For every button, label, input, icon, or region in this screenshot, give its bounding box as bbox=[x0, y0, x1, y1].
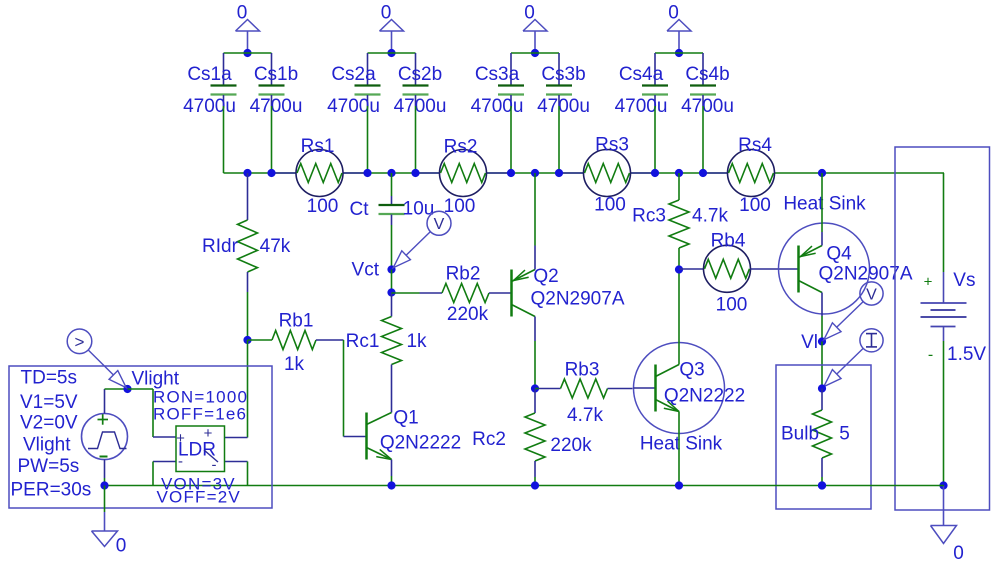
label Rb4 bbox=[711, 231, 746, 252]
junction on top rail x=271.5 bbox=[267, 169, 275, 177]
resistor Rb4 bbox=[679, 245, 799, 292]
capacitor Cs1b bbox=[259, 53, 285, 106]
svg-text:Cs1a: Cs1a bbox=[187, 64, 232, 85]
resistor Rb3 bbox=[535, 379, 633, 398]
svg-text:Vs: Vs bbox=[953, 270, 975, 291]
node bulb bottom bbox=[818, 481, 826, 489]
label Rs2 bbox=[444, 136, 478, 157]
label Rc2 bbox=[472, 429, 506, 450]
node junction Q2 collector/Rb3/Rc2 bbox=[531, 384, 539, 392]
label Bulb bbox=[781, 424, 819, 445]
label Rb3 bbox=[565, 360, 600, 381]
label Cs4a bbox=[619, 64, 664, 85]
value 4700u (Cs4a) bbox=[615, 96, 668, 117]
LDR switch arm bbox=[204, 450, 218, 462]
label Cs2a bbox=[331, 64, 376, 85]
svg-text:V1=5V: V1=5V bbox=[20, 392, 78, 413]
label Rs4 bbox=[738, 135, 772, 156]
svg-text:Q2N2907A: Q2N2907A bbox=[530, 289, 624, 310]
wire Cs2b to rail bbox=[415, 106, 417, 173]
svg-text:Q2: Q2 bbox=[533, 266, 558, 287]
ground 0 (top group 3) bbox=[523, 3, 547, 54]
wire Cs3a to rail bbox=[510, 106, 512, 173]
svg-text:100: 100 bbox=[307, 196, 339, 217]
svg-text:220k: 220k bbox=[550, 435, 592, 456]
junction on top rail x=511 bbox=[507, 169, 515, 177]
wire bottom rail bbox=[105, 485, 945, 487]
svg-text:Cs3b: Cs3b bbox=[541, 64, 585, 85]
wire Cs4b to rail bbox=[702, 106, 704, 173]
wire Vlight node to LDR bbox=[128, 389, 154, 437]
node bulb top bbox=[818, 384, 826, 392]
param V2=0V bbox=[20, 413, 78, 434]
svg-text:Rs4: Rs4 bbox=[738, 135, 772, 156]
value 4700u (Cs1a) bbox=[183, 96, 236, 117]
label Q2N2907A (Q4) bbox=[818, 264, 912, 285]
wire top rail segment 5 bbox=[775, 172, 945, 174]
wire Q3 emitter to rail bbox=[678, 412, 680, 486]
transistor circle Q4 bbox=[779, 223, 870, 314]
svg-text:V: V bbox=[434, 216, 445, 233]
voltage probe at Vl bbox=[824, 282, 883, 340]
label Rb1 bbox=[279, 311, 314, 332]
svg-text:4700u: 4700u bbox=[183, 96, 236, 117]
value 47k (RIdr) bbox=[260, 236, 291, 257]
value 5 (Bulb) bbox=[839, 424, 850, 445]
label - (Vs) bbox=[928, 347, 933, 364]
junction on top rail x=535 bbox=[531, 169, 539, 177]
label Cs4b bbox=[685, 64, 729, 85]
label Q3 bbox=[679, 360, 704, 381]
svg-text:TD=5s: TD=5s bbox=[21, 368, 78, 389]
svg-text:-: - bbox=[928, 347, 933, 364]
wire top rail segment 2 bbox=[343, 172, 440, 174]
svg-text:Cs2b: Cs2b bbox=[398, 64, 442, 85]
node junction Rc3/Rb4/Q3 bbox=[675, 265, 683, 273]
label Q1 bbox=[393, 408, 418, 429]
value 1.5V (Vs) bbox=[947, 344, 986, 365]
svg-text:Vl: Vl bbox=[801, 332, 818, 353]
wire battery to bottom rail bbox=[943, 327, 945, 486]
svg-text:LDR: LDR bbox=[178, 440, 216, 461]
svg-text:5: 5 bbox=[839, 424, 850, 445]
wire Q4 emitter to rail bbox=[821, 173, 823, 246]
junction on top rail x=367.5 bbox=[363, 169, 371, 177]
label + (Vs) bbox=[924, 274, 933, 291]
param VOFF=2V bbox=[157, 488, 241, 507]
label Ct bbox=[350, 199, 370, 220]
svg-text:-: - bbox=[212, 457, 217, 474]
svg-text:4700u: 4700u bbox=[681, 96, 734, 117]
label Cs3a bbox=[475, 64, 520, 85]
value 100 (Rs2) bbox=[444, 196, 476, 217]
svg-text:Cs1b: Cs1b bbox=[254, 64, 298, 85]
wire top group 1 bbox=[224, 52, 272, 54]
junction on bottom rail x=679 bbox=[675, 481, 683, 489]
wire top rail segment 3 bbox=[487, 172, 584, 174]
node Vct bbox=[352, 260, 396, 281]
label Heat Sink (Q4) bbox=[783, 194, 866, 215]
pin stubs Rs2 bbox=[416, 172, 512, 174]
ground 0 (top group 1) bbox=[236, 3, 260, 54]
wire Q2 collector down bbox=[534, 317, 536, 389]
label Vs bbox=[953, 270, 975, 291]
value 4700u (Cs3b) bbox=[537, 96, 590, 117]
wire Cs1a to rail bbox=[223, 106, 225, 173]
svg-text:Cs3a: Cs3a bbox=[475, 64, 520, 85]
pin LDR bottom-right bbox=[225, 462, 248, 486]
wire top group 2 bbox=[368, 52, 416, 54]
param RON=1000 bbox=[153, 388, 248, 407]
value 4700u (Cs2b) bbox=[394, 96, 447, 117]
label Rs3 bbox=[595, 134, 629, 155]
svg-text:+: + bbox=[924, 274, 933, 291]
label RIdr bbox=[202, 236, 239, 257]
junction on top rail x=822 bbox=[818, 169, 826, 177]
capacitor Cs4a bbox=[642, 53, 668, 106]
resistor Rs4 bbox=[728, 150, 775, 197]
value 100 (Rs3) bbox=[594, 194, 626, 215]
param PW=5s bbox=[18, 456, 80, 477]
svg-text:Vlight: Vlight bbox=[132, 369, 180, 390]
ground 0 (bottom right) bbox=[931, 486, 964, 563]
junction on bottom rail x=822 bbox=[818, 481, 826, 489]
label Cs1a bbox=[187, 64, 232, 85]
current probe at bulb bbox=[824, 329, 883, 387]
svg-text:ROFF=1e6: ROFF=1e6 bbox=[153, 405, 247, 424]
svg-text:Vct: Vct bbox=[352, 260, 380, 281]
wire Cs3b to rail bbox=[558, 106, 560, 173]
svg-text:Rs1: Rs1 bbox=[301, 136, 335, 157]
value 220k (Rb2) bbox=[447, 304, 489, 325]
value 100 (Rs1) bbox=[307, 196, 339, 217]
resistor RIdr bbox=[238, 173, 258, 340]
svg-text:Cs4b: Cs4b bbox=[685, 64, 729, 85]
value 1k (Rc1) bbox=[406, 331, 427, 352]
transistor circle Q3 bbox=[634, 343, 725, 434]
capacitor Ct bbox=[379, 173, 405, 270]
node Vlight bbox=[123, 369, 179, 394]
svg-text:100: 100 bbox=[716, 295, 748, 316]
ground 0 (bottom left) bbox=[92, 486, 127, 557]
label Q4 bbox=[826, 244, 852, 265]
node junction Vct/Rc1/Rb2 bbox=[387, 288, 395, 296]
junction on top rail x=559 bbox=[555, 169, 563, 177]
wire Vl to bulb bbox=[821, 342, 823, 389]
wire Q3 collector up bbox=[678, 270, 680, 365]
svg-text:Rc3: Rc3 bbox=[632, 206, 666, 227]
node junction top group 1 bbox=[243, 49, 251, 57]
transistor Q4 bbox=[799, 246, 823, 293]
svg-text:Rb2: Rb2 bbox=[446, 264, 481, 285]
resistor Rs1 bbox=[296, 150, 343, 197]
pin stubs Rs3 bbox=[559, 172, 655, 174]
param ROFF=1e6 bbox=[153, 405, 247, 424]
ground 0 (top group 2) bbox=[380, 3, 404, 54]
svg-text:Ct: Ct bbox=[350, 199, 370, 220]
svg-text:4700u: 4700u bbox=[615, 96, 668, 117]
resistor Rc2 bbox=[525, 389, 545, 486]
label - (LDR right) bbox=[212, 457, 217, 474]
ground 0 (top group 4) bbox=[667, 3, 691, 54]
svg-text:4.7k: 4.7k bbox=[692, 206, 728, 227]
capacitor Cs3b bbox=[546, 53, 572, 106]
wire top group 4 bbox=[655, 52, 703, 54]
LDR switch box bbox=[176, 426, 225, 472]
wire Q4 collector to Vl bbox=[821, 293, 823, 342]
resistor Rb1 bbox=[248, 331, 344, 350]
node Vl bbox=[801, 332, 826, 353]
svg-text:100: 100 bbox=[444, 196, 476, 217]
wire Rb2 node to Rb2 bbox=[392, 292, 443, 294]
label LDR bbox=[178, 440, 216, 461]
capacitor Cs2b bbox=[403, 53, 429, 106]
label Heat Sink (Q3) bbox=[640, 434, 723, 455]
label Cs1b bbox=[254, 64, 298, 85]
wire rail to battery bbox=[943, 173, 945, 303]
svg-text:1k: 1k bbox=[406, 331, 427, 352]
battery box bbox=[895, 147, 990, 510]
svg-text:-: - bbox=[178, 453, 183, 470]
label + (LDR right) bbox=[204, 425, 213, 442]
svg-text:Rb4: Rb4 bbox=[711, 231, 746, 252]
svg-text:4700u: 4700u bbox=[394, 96, 447, 117]
pin stubs Rs4 bbox=[703, 172, 775, 174]
junction on top rail x=391.5 bbox=[387, 169, 395, 177]
probe marker at Vlight bbox=[67, 329, 126, 388]
wire Q2 emitter to rail bbox=[534, 173, 536, 270]
svg-text:Cs4a: Cs4a bbox=[619, 64, 664, 85]
bulb box bbox=[776, 365, 871, 509]
svg-text:VOFF=2V: VOFF=2V bbox=[157, 488, 241, 507]
transistor Q1 bbox=[367, 413, 392, 460]
junction on top rail x=679 bbox=[675, 169, 683, 177]
svg-text:Rs2: Rs2 bbox=[444, 136, 478, 157]
svg-text:PER=30s: PER=30s bbox=[11, 480, 92, 501]
value 4700u (Cs1b) bbox=[250, 96, 303, 117]
label Q2N2222 (Q3) bbox=[664, 386, 745, 407]
label - (LDR left) bbox=[178, 453, 183, 470]
svg-text:Rb3: Rb3 bbox=[565, 360, 600, 381]
pin Vlight top bbox=[105, 389, 128, 414]
value 10u (Ct) bbox=[403, 199, 435, 220]
junction on top rail x=247.5 bbox=[243, 169, 251, 177]
label Rc3 bbox=[632, 206, 666, 227]
svg-text:0: 0 bbox=[116, 536, 127, 557]
svg-text:Q2N2222: Q2N2222 bbox=[664, 386, 745, 407]
wire Q1 emitter to rail bbox=[391, 460, 393, 486]
svg-text:47k: 47k bbox=[260, 236, 291, 257]
wire top rail segment 1 bbox=[224, 172, 297, 174]
svg-text:Rc2: Rc2 bbox=[472, 429, 506, 450]
svg-text:Q2N2222: Q2N2222 bbox=[380, 433, 461, 454]
svg-text:V2=0V: V2=0V bbox=[20, 413, 78, 434]
svg-text:Cs2a: Cs2a bbox=[331, 64, 376, 85]
param PER=30s bbox=[11, 480, 92, 501]
wire Rc1 to Q1 collector bbox=[391, 389, 393, 413]
value 100 (Rb4) bbox=[716, 295, 748, 316]
junction on top rail x=703 bbox=[699, 169, 707, 177]
resistor Rb2 bbox=[442, 284, 489, 303]
junction on bottom rail x=391.5 bbox=[387, 481, 395, 489]
svg-text:100: 100 bbox=[739, 195, 771, 216]
resistor Rc3 bbox=[669, 173, 689, 270]
svg-text:>: > bbox=[75, 332, 85, 351]
svg-text:Q4: Q4 bbox=[826, 244, 852, 265]
pin stubs Rs1 bbox=[272, 172, 368, 174]
label + (LDR left) bbox=[176, 430, 185, 447]
resistor Rc1 bbox=[382, 293, 402, 390]
node junction top group 4 bbox=[675, 49, 683, 57]
pin Rb2 to Q2 base bbox=[489, 292, 512, 294]
label Q2N2907A (Q2) bbox=[530, 289, 624, 310]
value 100 (Rs4) bbox=[739, 195, 771, 216]
capacitor Cs1a bbox=[211, 53, 237, 106]
junction on top rail x=655 bbox=[651, 169, 659, 177]
svg-text:RIdr: RIdr bbox=[202, 236, 239, 257]
capacitor Cs3a bbox=[498, 53, 524, 106]
label Cs3b bbox=[541, 64, 585, 85]
svg-text:Bulb: Bulb bbox=[781, 424, 819, 445]
transistor Q2 bbox=[512, 270, 536, 317]
wire Vct to Rb2 node bbox=[391, 270, 393, 293]
value 220k (Rc2) bbox=[550, 435, 592, 456]
transistor Q3 bbox=[634, 365, 680, 412]
svg-text:4700u: 4700u bbox=[327, 96, 380, 117]
battery Vs bbox=[921, 303, 967, 327]
wire Cs2a to rail bbox=[367, 106, 369, 173]
param TD=5s bbox=[21, 368, 78, 389]
node battery bottom bbox=[939, 481, 947, 489]
capacitor Cs4b bbox=[690, 53, 716, 106]
svg-text:100: 100 bbox=[594, 194, 626, 215]
junction on top rail x=415.5 bbox=[411, 169, 419, 177]
svg-text:220k: 220k bbox=[447, 304, 489, 325]
node junction RIdr/Rb1 bbox=[243, 336, 251, 344]
svg-text:4700u: 4700u bbox=[537, 96, 590, 117]
label Q2 bbox=[533, 266, 558, 287]
capacitor Cs2a bbox=[355, 53, 381, 106]
node Vlight bottom bbox=[100, 481, 108, 489]
pin LDR top-right bbox=[225, 437, 248, 439]
value 4.7k (Rc3) bbox=[692, 206, 728, 227]
label Vlight (part name) bbox=[23, 435, 71, 456]
node junction top group 3 bbox=[531, 49, 539, 57]
value 4700u (Cs4b) bbox=[681, 96, 734, 117]
svg-text:4700u: 4700u bbox=[250, 96, 303, 117]
svg-text:4700u: 4700u bbox=[471, 96, 524, 117]
svg-text:Heat Sink: Heat Sink bbox=[783, 194, 866, 215]
junction on bottom rail x=535 bbox=[531, 481, 539, 489]
param VON=3V bbox=[161, 475, 236, 494]
wire top rail segment 4 bbox=[631, 172, 728, 174]
svg-text:Vlight: Vlight bbox=[23, 435, 71, 456]
svg-text:Rb1: Rb1 bbox=[279, 311, 314, 332]
voltage source Vlight bbox=[82, 414, 128, 460]
svg-text:4.7k: 4.7k bbox=[567, 405, 603, 426]
svg-text:Q2N2907A: Q2N2907A bbox=[818, 264, 912, 285]
svg-text:1k: 1k bbox=[284, 354, 305, 375]
label Rb2 bbox=[446, 264, 481, 285]
voltage probe at Vct bbox=[393, 211, 451, 267]
label Rs1 bbox=[301, 136, 335, 157]
value 4700u (Cs2a) bbox=[327, 96, 380, 117]
wire Cs4a to rail bbox=[654, 106, 656, 173]
svg-text:1.5V: 1.5V bbox=[947, 344, 986, 365]
resistor Rs3 bbox=[584, 150, 631, 197]
vlight outer box bbox=[9, 366, 272, 508]
wire Cs1b to rail bbox=[271, 106, 273, 173]
resistor Bulb bbox=[813, 389, 832, 486]
value 4700u (Cs3a) bbox=[471, 96, 524, 117]
value 1k (Rb1) bbox=[284, 354, 305, 375]
svg-text:0: 0 bbox=[953, 543, 964, 563]
svg-text:PW=5s: PW=5s bbox=[18, 456, 80, 477]
pin Vlight bottom bbox=[104, 460, 106, 486]
svg-text:Rs3: Rs3 bbox=[595, 134, 629, 155]
svg-text:Heat Sink: Heat Sink bbox=[640, 434, 723, 455]
wire Rb1 to Q1 base bbox=[344, 340, 367, 437]
wire RIdr node to LDR bbox=[247, 340, 249, 438]
resistor Rs2 bbox=[440, 150, 487, 197]
svg-text:Q1: Q1 bbox=[393, 408, 418, 429]
param V1=5V bbox=[20, 392, 78, 413]
svg-text:V: V bbox=[866, 286, 877, 303]
svg-text:Q3: Q3 bbox=[679, 360, 704, 381]
label Rc1 bbox=[346, 331, 380, 352]
label Q2N2222 (Q1) bbox=[380, 433, 461, 454]
pin LDR bottom-left bbox=[153, 462, 176, 486]
pin LDR top-left bbox=[153, 436, 176, 438]
value 4.7k (Rb3) bbox=[567, 405, 603, 426]
label Cs2b bbox=[398, 64, 442, 85]
node junction top group 2 bbox=[387, 49, 395, 57]
wire top group 3 bbox=[511, 52, 559, 54]
svg-text:Rc1: Rc1 bbox=[346, 331, 380, 352]
